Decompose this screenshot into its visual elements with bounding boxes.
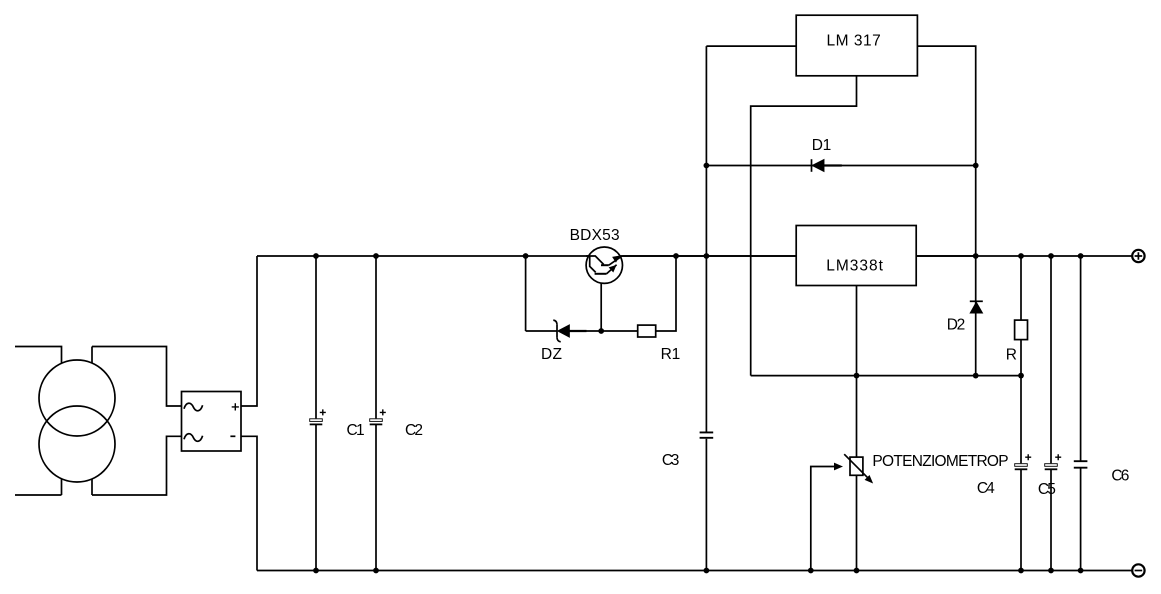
node R1 branch top xyxy=(673,253,679,259)
node D1 right xyxy=(973,163,979,169)
node pot bottom xyxy=(854,568,860,574)
node C6 bottom xyxy=(1078,568,1084,574)
bottom rail (negative) xyxy=(257,570,1132,572)
wire primary top lead xyxy=(15,347,62,496)
regulator U2 LM338t xyxy=(796,226,916,286)
svg-text:C2: C2 xyxy=(405,422,423,439)
node C3 bottom xyxy=(704,568,710,574)
pot wiper arrowhead xyxy=(835,464,842,470)
diode D1 xyxy=(812,159,842,172)
wire DZ to R1 xyxy=(569,330,638,332)
wire LM317 adj pin route xyxy=(751,76,857,376)
svg-text:C6: C6 xyxy=(1111,468,1129,485)
adj horizontal rail xyxy=(751,375,1021,377)
node R top xyxy=(1018,253,1024,259)
svg-text:BDX53: BDX53 xyxy=(570,227,620,244)
svg-text:LM 317: LM 317 xyxy=(827,32,881,49)
node rail at D2 branch xyxy=(973,253,979,259)
wire secondary bottom lead xyxy=(92,436,182,495)
wire LM338t adj pin xyxy=(856,286,858,457)
node C1 top xyxy=(313,253,319,259)
wire DZ branch down xyxy=(525,256,527,331)
wire pot wiper xyxy=(811,467,835,571)
capacitor C2 xyxy=(370,256,386,571)
node transistor base junction xyxy=(598,328,604,334)
svg-text:R1: R1 xyxy=(661,346,681,363)
svg-text:DZ: DZ xyxy=(541,346,562,363)
bridge rectifier B1 xyxy=(182,392,242,452)
wire main node vertical xyxy=(705,46,707,570)
wire rail transistor to main node xyxy=(623,255,797,257)
capacitor C6 xyxy=(1074,256,1088,571)
node adj R xyxy=(1018,373,1024,379)
terminal minus xyxy=(1132,564,1144,576)
node adj D2 xyxy=(973,373,979,379)
wire R1 to right branch xyxy=(656,256,676,331)
svg-text:D2: D2 xyxy=(947,317,966,334)
diode D1 row xyxy=(706,165,975,167)
svg-text:C4: C4 xyxy=(977,480,995,497)
svg-text:LM338t: LM338t xyxy=(826,258,883,275)
node DZ branch xyxy=(523,253,529,259)
wire D2 branch xyxy=(975,256,977,376)
diode D2 xyxy=(970,301,983,313)
svg-text:D1: D1 xyxy=(812,137,831,154)
wire bridge minus output to bottom rail xyxy=(241,436,257,570)
node C5 bottom xyxy=(1048,568,1054,574)
svg-text:C1: C1 xyxy=(347,422,365,439)
wire LM338t output to rail xyxy=(916,255,976,257)
node adj rail xyxy=(854,373,860,379)
wire secondary top lead xyxy=(92,347,182,496)
wire DZ anode row xyxy=(526,330,557,332)
capacitor C3 xyxy=(700,432,714,437)
resistor R1 xyxy=(638,325,656,337)
zener diode DZ xyxy=(553,320,586,342)
resistor R xyxy=(1015,256,1028,376)
wire LM317 output pin xyxy=(917,46,975,165)
svg-text:C3: C3 xyxy=(662,452,680,469)
regulator U1 LM 317 xyxy=(796,15,917,76)
wire junction up to transistor xyxy=(600,274,602,331)
capacitor C1 xyxy=(310,256,326,571)
node main vertical top rail xyxy=(704,253,710,259)
capacitor C4 xyxy=(1015,376,1031,571)
node wiper bottom xyxy=(808,568,814,574)
svg-text:R: R xyxy=(1006,347,1017,364)
node D1 left xyxy=(704,163,710,169)
node C2 top xyxy=(373,253,379,259)
node C2 bottom xyxy=(373,568,379,574)
terminal plus xyxy=(1132,250,1144,262)
wire bridge plus output to top rail xyxy=(241,256,257,406)
wire LM317 output to rail xyxy=(975,166,977,257)
node C4 bottom xyxy=(1018,568,1024,574)
top rail (positive) xyxy=(257,255,1132,257)
node C1 bottom xyxy=(313,568,319,574)
wire primary bottom lead xyxy=(15,494,62,496)
potentiometer P xyxy=(844,454,872,570)
node C6 top xyxy=(1078,253,1084,259)
node C5 top xyxy=(1048,253,1054,259)
transistor Q1 BDX53 xyxy=(586,247,622,283)
transformer T1 windings xyxy=(39,360,115,482)
capacitor C5 xyxy=(1045,256,1062,571)
svg-text:C5: C5 xyxy=(1038,481,1056,498)
svg-text:POTENZIOMETROP: POTENZIOMETROP xyxy=(872,453,1008,470)
wire LM317 input pin xyxy=(706,45,796,47)
